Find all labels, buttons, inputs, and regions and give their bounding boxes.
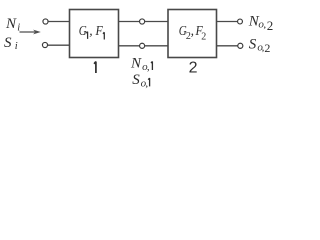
wire lower middle (right half) <box>145 45 168 47</box>
svg-text:,: , <box>147 61 150 73</box>
terminal circle upper-left <box>43 19 48 24</box>
svg-text:F: F <box>95 23 103 38</box>
wire lower-left input <box>48 44 70 46</box>
svg-text:N: N <box>130 56 142 72</box>
stage 1 box <box>70 10 119 58</box>
node No1 (interstage noise label) <box>130 56 152 73</box>
svg-text:i: i <box>15 41 18 52</box>
wire upper right output <box>217 21 238 23</box>
wire upper middle (left half) <box>119 21 140 23</box>
wire upper-left input <box>48 21 69 23</box>
svg-text:N: N <box>5 16 17 32</box>
terminal circle lower-left <box>42 42 47 47</box>
label G1, F1 <box>79 23 105 40</box>
svg-text:2: 2 <box>264 41 270 55</box>
stage number 1 <box>94 62 96 74</box>
terminal circle upper right <box>238 19 243 24</box>
node No2 (output noise label) <box>248 13 274 33</box>
svg-text:S: S <box>249 36 257 52</box>
node So2 (output signal label) <box>249 36 271 54</box>
node Si (input signal label) <box>4 35 18 52</box>
svg-text:S: S <box>4 35 12 51</box>
svg-text:2: 2 <box>189 60 198 77</box>
svg-text:2: 2 <box>267 18 274 33</box>
svg-text:,: , <box>89 23 92 38</box>
svg-text:S: S <box>132 72 140 88</box>
label G2, F2 <box>179 23 207 42</box>
svg-text:G: G <box>79 23 87 38</box>
terminal circle lower middle <box>140 43 145 48</box>
svg-text:,: , <box>191 23 194 38</box>
wire upper middle (right half) <box>145 21 168 23</box>
terminal circle lower right <box>238 43 243 48</box>
wire lower middle (left half) <box>119 45 140 47</box>
svg-text:2: 2 <box>201 31 206 42</box>
node Ni (input noise label) <box>5 16 20 33</box>
node So1 (interstage signal label) <box>132 72 149 89</box>
wire lower right output <box>217 45 239 47</box>
stage 2 box <box>168 10 217 58</box>
input arrow <box>20 30 41 35</box>
terminal circle upper middle <box>140 19 145 24</box>
